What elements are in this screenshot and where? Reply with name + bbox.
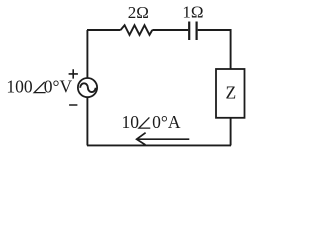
minus sign of source	[69, 104, 77, 106]
left wire lower segment	[86, 97, 88, 145]
AC source sine wave	[80, 83, 95, 92]
current arrow head	[137, 133, 146, 145]
resistor R 2ohm zigzag	[121, 25, 153, 35]
current arrow shaft	[137, 138, 189, 140]
capacitor C 1ohm right plate	[196, 22, 198, 41]
source label angle symbol	[34, 82, 45, 93]
svg-text:10: 10	[122, 112, 140, 132]
svg-text:Z: Z	[225, 82, 236, 102]
impedance box Z	[216, 69, 245, 118]
left wire upper segment	[86, 30, 88, 78]
svg-text:1Ω: 1Ω	[182, 3, 203, 22]
svg-text:100: 100	[6, 77, 33, 97]
wire between resistor and capacitor	[152, 29, 188, 31]
wire top-left from corner to resistor	[87, 29, 121, 31]
svg-text:0°V: 0°V	[44, 77, 73, 97]
svg-text:0°A: 0°A	[152, 112, 181, 132]
wire from capacitor to top-right corner and down to Z box	[198, 30, 231, 69]
bottom wire	[87, 144, 231, 146]
wire from Z box to bottom-right corner	[230, 118, 232, 146]
capacitor C 1ohm left plate	[188, 22, 190, 41]
AC source circle	[78, 78, 97, 97]
current label angle symbol	[139, 117, 150, 128]
plus sign of source	[69, 69, 78, 78]
svg-text:2Ω: 2Ω	[128, 3, 149, 22]
